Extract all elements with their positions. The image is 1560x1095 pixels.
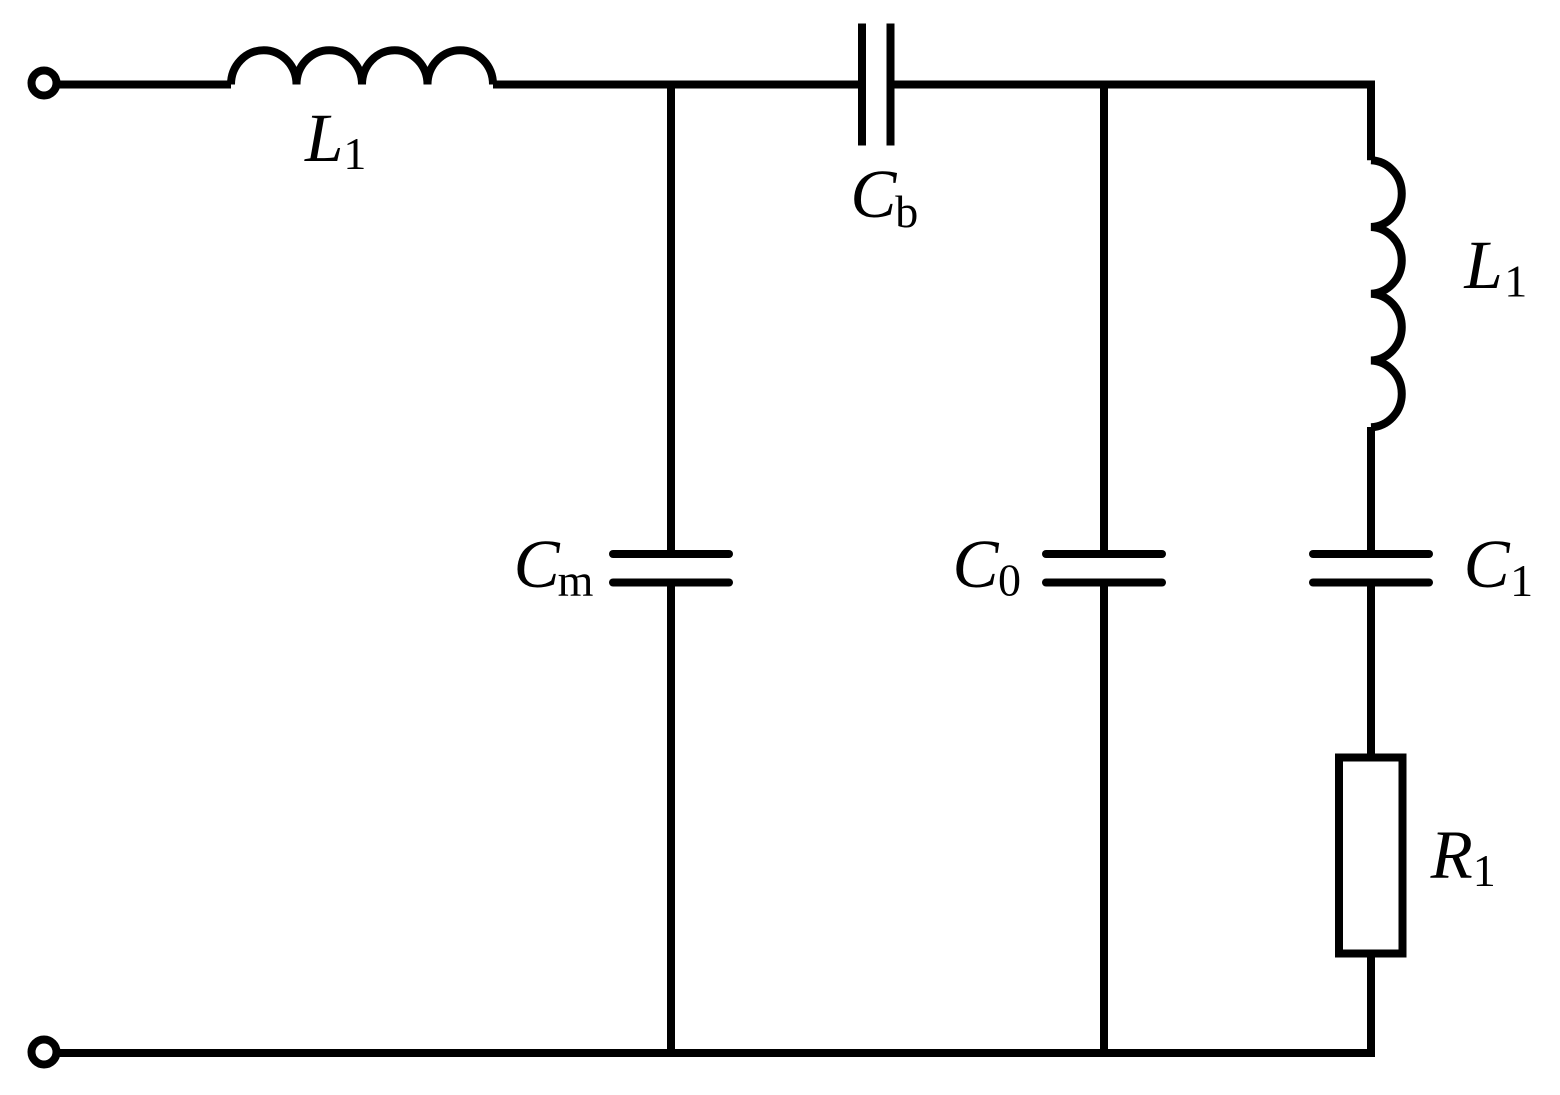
capacitor Cb right plate	[887, 24, 895, 146]
capacitor Cb left plate	[858, 24, 866, 146]
svg-text:1: 1	[1473, 845, 1496, 896]
capacitor C1 bottom plate	[1313, 579, 1429, 587]
wire C1 to R1	[1367, 583, 1375, 758]
wire inductor to Cb left plate	[493, 81, 858, 89]
svg-text:C: C	[953, 526, 1000, 602]
terminal bottom-left	[32, 1040, 57, 1065]
capacitor C1 top plate	[1313, 550, 1429, 558]
svg-text:L: L	[304, 100, 343, 176]
resistor R1 body	[1339, 758, 1403, 954]
svg-text:b: b	[895, 186, 918, 237]
svg-text:1: 1	[1504, 256, 1527, 307]
wire Cb to top-right corner	[895, 85, 1372, 161]
svg-text:0: 0	[998, 555, 1021, 606]
wire R1 to bottom and bottom wire	[57, 954, 1371, 1054]
svg-text:1: 1	[343, 128, 366, 179]
terminal top-left	[32, 71, 57, 96]
wire right inductor to C1	[1367, 427, 1375, 554]
svg-text:C: C	[1464, 526, 1511, 602]
wire top-left segment	[57, 81, 231, 89]
node Cm branch wire upper	[667, 85, 675, 555]
svg-text:C: C	[514, 526, 561, 602]
inductor L1 (right branch, 4 humps)	[1371, 160, 1402, 427]
svg-text:m: m	[558, 555, 594, 606]
svg-text:C: C	[850, 156, 897, 232]
svg-text:1: 1	[1510, 555, 1533, 606]
node C0 branch wire upper	[1100, 85, 1108, 555]
wire Cm branch lower	[667, 583, 675, 1054]
capacitor Cm bottom plate	[613, 579, 729, 587]
capacitor C0 bottom plate	[1046, 579, 1162, 587]
svg-text:R: R	[1430, 817, 1473, 893]
capacitor C0 top plate	[1046, 550, 1162, 558]
inductor L1 (top, 4 humps)	[231, 50, 493, 84]
svg-text:L: L	[1463, 227, 1502, 303]
capacitor Cm top plate	[613, 550, 729, 558]
wire C0 branch lower	[1100, 583, 1108, 1054]
